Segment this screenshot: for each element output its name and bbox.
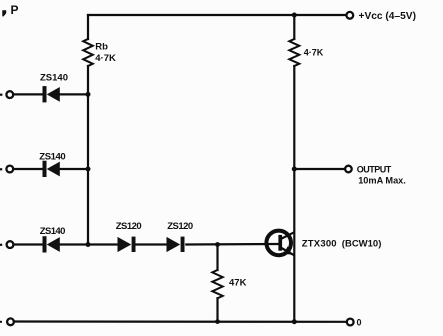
svg-text:ZS140: ZS140 <box>40 226 65 237</box>
svg-text:+Vcc (4–5V): +Vcc (4–5V) <box>359 11 416 22</box>
svg-text:ZS120: ZS120 <box>167 221 193 232</box>
svg-text:OUTPUT: OUTPUT <box>357 165 392 175</box>
svg-text:47K: 47K <box>229 278 247 289</box>
svg-text:ZTX300: ZTX300 <box>302 238 337 249</box>
svg-text:10mA Max.: 10mA Max. <box>358 176 406 186</box>
svg-text:(BCW10): (BCW10) <box>342 239 382 250</box>
svg-text:ZS140: ZS140 <box>39 151 65 162</box>
svg-text:4·7K: 4·7K <box>95 53 116 64</box>
svg-text:P: P <box>11 3 19 17</box>
svg-text:0: 0 <box>357 317 362 327</box>
svg-text:4·7K: 4·7K <box>304 47 324 57</box>
svg-text:Rb: Rb <box>95 42 108 53</box>
svg-text:ZS140: ZS140 <box>40 73 68 84</box>
svg-text:ZS120: ZS120 <box>116 221 142 232</box>
